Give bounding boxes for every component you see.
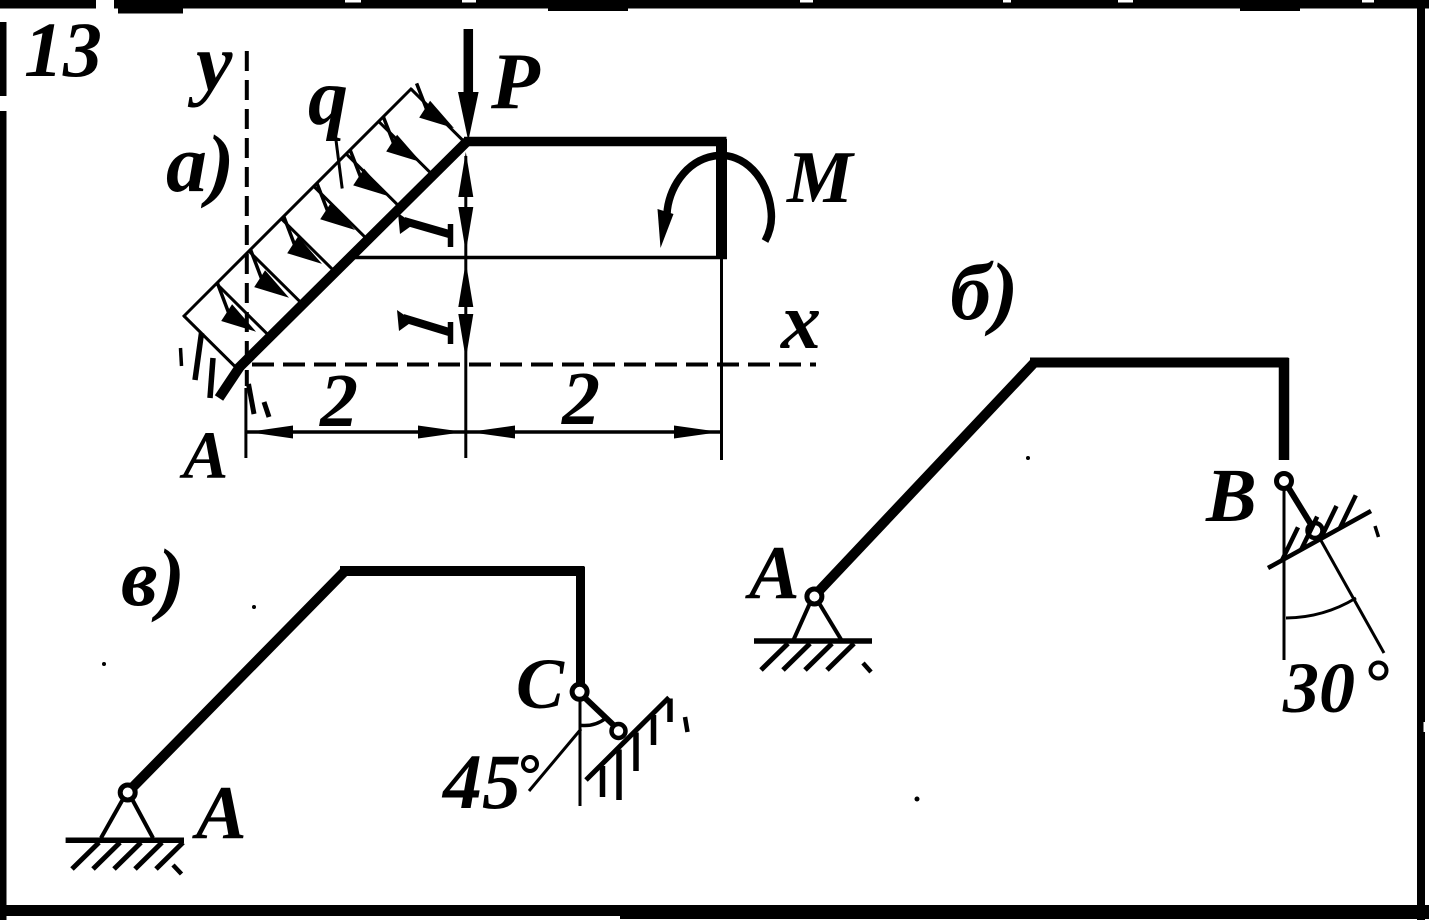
distributed load q arrow 5 bbox=[353, 169, 388, 196]
distributed load q arrow 4 bbox=[320, 203, 355, 231]
roller link at C bbox=[584, 697, 615, 726]
right vertical member (part b) bbox=[1279, 358, 1290, 460]
vertical dimension arrows l (lower span) bbox=[458, 262, 473, 307]
fixed support hatching at A (part a) bbox=[181, 348, 182, 366]
border frame left bar bbox=[0, 22, 7, 920]
distributed load q arrow 7 bbox=[419, 101, 454, 128]
extension line right bbox=[720, 258, 723, 461]
pin support at A (part b) bbox=[807, 589, 822, 604]
distributed load q arrow 1 bbox=[221, 304, 256, 332]
roller link at B bbox=[1288, 487, 1312, 526]
dimension arrowheads (2,2) bbox=[248, 426, 294, 439]
distributed load q arrow 2 bbox=[254, 270, 289, 298]
svg-text:б): б) bbox=[950, 246, 1018, 337]
svg-text:30: 30 bbox=[1282, 648, 1355, 728]
border frame right bar bbox=[1417, 4, 1425, 920]
distributed load q arrow 3 bbox=[287, 236, 322, 264]
svg-text:q: q bbox=[308, 54, 348, 142]
svg-text:A: A bbox=[192, 771, 247, 855]
inclined member (part v) bbox=[131, 572, 344, 789]
distributed load q arrow 6 bbox=[386, 135, 421, 162]
45 degree leader line bbox=[529, 729, 581, 791]
hatching at A support (part v) bbox=[72, 843, 99, 870]
moment M arc with arrowhead bbox=[667, 155, 771, 241]
30 degree arc bbox=[1286, 598, 1356, 618]
svg-text:2: 2 bbox=[319, 359, 358, 443]
pin support at A (part v) bbox=[120, 785, 135, 800]
pin circle at B bbox=[1277, 474, 1292, 489]
inclined ground line at B bbox=[1268, 511, 1371, 568]
q leader line bbox=[334, 128, 342, 189]
svg-text:B: B bbox=[1205, 454, 1257, 538]
hatching at A support (part b) bbox=[761, 644, 788, 671]
border frame bottom bar bbox=[0, 905, 1429, 916]
svg-text:2: 2 bbox=[561, 357, 600, 441]
roller circle at B bbox=[1308, 523, 1323, 538]
thin horizontal line at mid height bbox=[351, 256, 727, 260]
right vertical member (part v) bbox=[576, 567, 585, 684]
distributed load q division line 6 bbox=[379, 121, 432, 173]
distributed load q end cap 7 bbox=[411, 89, 464, 142]
svg-text:45: 45 bbox=[441, 738, 521, 825]
inclined member A-corner (part a) bbox=[238, 142, 467, 369]
svg-text:M: M bbox=[786, 137, 855, 219]
extension line below A bbox=[244, 388, 247, 458]
svg-text:P: P bbox=[490, 38, 541, 126]
force P arrow bbox=[464, 29, 474, 100]
svg-text:x: x bbox=[780, 278, 821, 366]
pin circle at C bbox=[572, 684, 587, 699]
hatching at C support bbox=[600, 766, 606, 797]
svg-text:в): в) bbox=[121, 532, 185, 623]
svg-text:A: A bbox=[179, 417, 228, 493]
top horizontal member (part b) bbox=[1030, 358, 1289, 368]
svg-text:a): a) bbox=[166, 118, 234, 209]
distributed load q division line 2 bbox=[249, 251, 302, 304]
distributed load q division line 1 bbox=[216, 284, 269, 337]
length label l (upper) bbox=[404, 221, 449, 234]
vertical dimension arrows l (upper span) bbox=[458, 152, 473, 197]
y axis dashed line bbox=[245, 51, 249, 386]
link axis extension line at B bbox=[1319, 537, 1384, 653]
vertical reference line below C bbox=[579, 700, 582, 806]
top horizontal member (part a) bbox=[464, 137, 727, 147]
x axis dashed line bbox=[252, 363, 816, 367]
distributed load q outer edge bbox=[183, 88, 412, 317]
inclined member (part b) bbox=[818, 363, 1034, 592]
svg-text:A: A bbox=[745, 531, 800, 615]
hatching at B support bbox=[1282, 527, 1298, 560]
svg-text:13: 13 bbox=[24, 6, 102, 93]
stray scan specks bbox=[252, 605, 256, 609]
top horizontal member (part v) bbox=[340, 566, 585, 576]
horizontal dimension line bbox=[247, 430, 720, 434]
svg-text:C: C bbox=[516, 644, 565, 724]
length label l (lower) bbox=[403, 318, 449, 332]
distributed load q division line 5 bbox=[346, 154, 399, 207]
distributed load q division line 4 bbox=[314, 186, 367, 239]
extension line through P point bbox=[464, 156, 467, 458]
roller circle at C bbox=[612, 724, 626, 738]
right vertical member (part a) bbox=[716, 139, 727, 257]
distributed load q division line 3 bbox=[281, 219, 334, 272]
border frame top band bbox=[0, 0, 1429, 9]
inclined ground line at C bbox=[586, 698, 669, 781]
45 degree arc bbox=[581, 719, 605, 726]
vertical reference line below B bbox=[1283, 490, 1286, 660]
distributed load q end cap 0 bbox=[184, 316, 237, 369]
